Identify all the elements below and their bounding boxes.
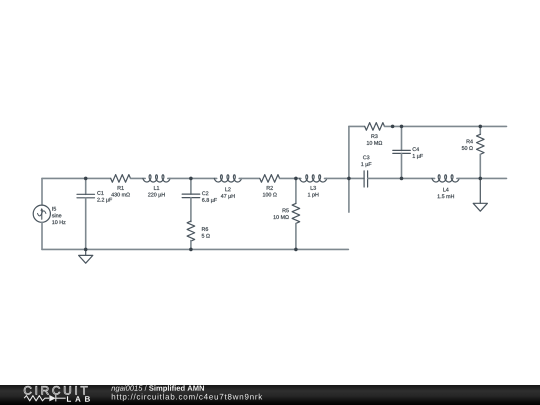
wire left vertical lower: [41, 222, 43, 249]
resistor R6: [187, 221, 195, 241]
wire L3 to C3: [325, 177, 365, 179]
label C2 6.8 uF: [202, 191, 217, 203]
wire R4 lower stub: [479, 154, 481, 178]
ground: [79, 249, 93, 263]
wire R5 lower stub: [295, 224, 297, 250]
label L4 1.5 mH: [438, 188, 454, 198]
node ground junction: [84, 248, 88, 252]
wire C4 lower stub: [401, 153, 403, 178]
resistor R3: [365, 123, 385, 131]
wire L4 to right end: [457, 177, 507, 179]
label R1 430 mOhm: [111, 186, 130, 196]
url line: [112, 394, 263, 402]
wire top rail left: [349, 125, 365, 127]
node R5 bottom junction: [294, 248, 298, 252]
wire R4 upper stub: [479, 126, 481, 134]
wire C2 upper stub: [190, 178, 192, 194]
label R6 5 Ohm: [202, 227, 210, 237]
CircuitLab logo glyph: resistor wire and diode: [24, 395, 66, 401]
resistor R2: [260, 175, 280, 183]
node R6 bottom junction: [189, 248, 193, 252]
wire R1 to L1: [131, 177, 146, 179]
label L1 220 uH: [148, 186, 165, 197]
node C2 top junction: [189, 177, 193, 181]
inductor L4: [432, 175, 459, 182]
wire bottom rail: [42, 248, 348, 250]
label C3 1 uF: [361, 155, 371, 167]
node crossing junction: [347, 177, 351, 181]
wire R2 to L3: [280, 177, 301, 179]
wire C1 lower stub: [85, 198, 87, 250]
label R5 10 MOhm: [274, 209, 289, 219]
wire source to R1: [42, 177, 111, 179]
label L2 47 uH: [221, 187, 235, 199]
node R5 top junction: [294, 177, 298, 181]
label R4 50 Ohm: [462, 140, 473, 150]
node R4 top junction: [479, 125, 483, 129]
wire C3 to L4: [368, 177, 435, 179]
resistor R5: [292, 203, 300, 223]
label C1 2.2 uF: [97, 191, 112, 203]
resistor R1: [111, 175, 131, 183]
wire top rail right: [385, 125, 507, 127]
wire C2 to R6: [190, 198, 192, 222]
inductor L3: [300, 175, 327, 182]
title: ngai0015 / Simplified AMN: [111, 385, 204, 392]
label R3 10 MOhm: [367, 134, 382, 144]
label L3 1 pH: [308, 186, 318, 198]
current source I5: [33, 205, 50, 222]
node top rail junction A: [391, 125, 395, 129]
inductor L2: [214, 175, 241, 182]
inductor L1: [143, 175, 170, 182]
wire L1 to L2: [168, 177, 217, 179]
wire left vertical upper: [41, 178, 43, 205]
capacitor C1: [77, 194, 95, 198]
capacitor C2: [182, 194, 200, 198]
logo word LAB: [67, 396, 90, 402]
wire vertical stub at node: [348, 126, 350, 212]
ground 2: [473, 178, 487, 211]
capacitor C3: [364, 171, 368, 187]
capacitor C4: [393, 150, 411, 153]
label C4 1 uF: [413, 147, 423, 159]
resistor R4: [477, 134, 485, 154]
CircuitLab logo diode arrow: [49, 395, 56, 401]
wire C4 upper stub: [401, 126, 403, 150]
node C1 top junction: [84, 177, 88, 181]
label I5 sine 10 Hz: [52, 207, 66, 224]
wire R5 upper stub: [295, 178, 297, 203]
wire L2 to R2: [239, 177, 259, 179]
CircuitLab logo word CIRCUIT: [24, 386, 87, 394]
node C4 bottom junction: [400, 177, 404, 181]
wire R6 lower stub: [190, 241, 192, 250]
label R2 100 Ohm: [263, 186, 277, 196]
node C4 top junction: [400, 125, 404, 129]
wire C1 upper stub: [85, 178, 87, 194]
node R4 bottom junction: [479, 177, 483, 181]
